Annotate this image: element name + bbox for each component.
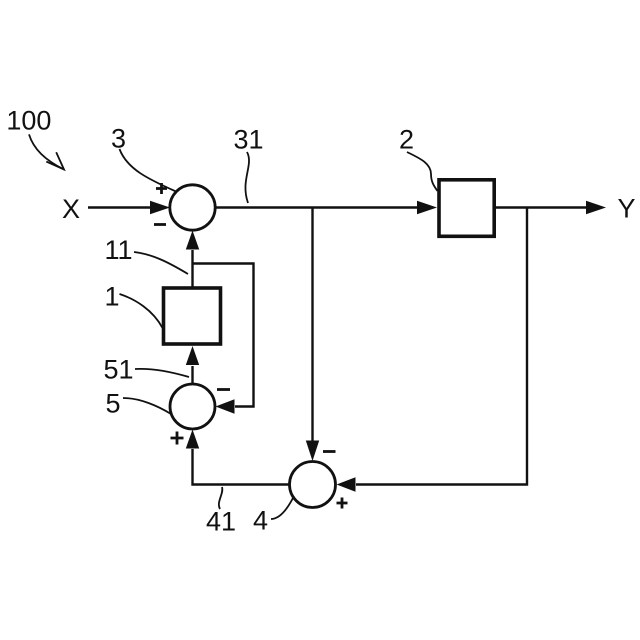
svg-text:1: 1 [105,282,120,312]
svg-text:51: 51 [104,355,134,385]
svg-text:X: X [62,194,80,224]
svg-text:Y: Y [618,194,636,224]
svg-text:4: 4 [253,506,268,536]
svg-text:41: 41 [206,507,236,537]
svg-text:2: 2 [399,125,414,155]
svg-text:31: 31 [234,125,264,155]
svg-text:5: 5 [106,389,121,419]
svg-text:3: 3 [111,124,126,154]
svg-text:100: 100 [6,106,51,136]
svg-text:11: 11 [105,235,133,265]
